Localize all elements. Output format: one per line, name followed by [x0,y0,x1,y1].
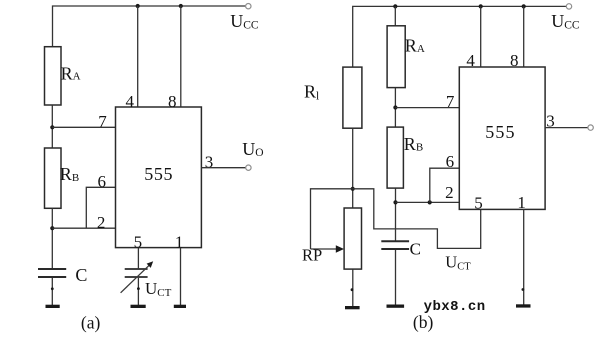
svg-text:8: 8 [510,51,519,70]
capacitor C (b) bottom plate [381,248,409,250]
terminal Ucc (a) open circle [246,3,251,8]
wire: pin 1 to ground (b) [523,209,525,304]
svg-text:2: 2 [97,213,106,232]
wire: R1 bottom to RP top (b) [352,128,354,208]
wire: RP wiper loop (b) [311,189,353,249]
ground (RP of b) [345,306,360,309]
svg-text:(b): (b) [413,312,434,332]
svg-text:4: 4 [466,51,475,70]
wire: variable capacitor to ground (a) [137,278,139,305]
resistor RB (a) [45,148,62,208]
junction: node pin7 (b) [393,105,397,109]
svg-text:1: 1 [517,193,526,212]
ground (C of b) [387,305,405,308]
resistor RB (b) [387,127,403,188]
svg-text:7: 7 [98,112,107,131]
svg-text:(a): (a) [81,313,101,333]
variable capacitor CT (a) bottom plate [125,276,148,278]
wire: control voltage pin 5 routing to RP wiper node (b) [353,189,481,249]
wire: pin 8 to supply (b) [523,6,525,67]
resistor RA (b) [387,26,405,88]
svg-text:8: 8 [168,92,177,111]
wire: RA bottom to RB top (b) [394,88,396,128]
ground (pin 5 of a) [131,305,146,308]
wire: RB bottom to capacitor C (a) [51,208,53,268]
wiper arrow shaft (b) [311,248,339,250]
capacitor C (b) top plate [381,240,409,242]
svg-text:C: C [75,265,87,285]
svg-text:RB: RB [60,164,79,184]
wire: pin 5 to variable capacitor (a) [137,248,139,269]
svg-text:UCC: UCC [551,11,580,32]
resistor RA (a) [45,47,62,105]
svg-text:C: C [410,239,421,258]
junction dot on pin1 ground wire (b) [522,288,525,291]
capacitor C (a) top plate [38,268,66,270]
svg-text:3: 3 [205,152,214,171]
wire: pin 4 to supply (b) [480,6,482,67]
wire: pin 8 to supply (a) [180,6,182,107]
wire: top supply rail (a) from RA top corner to Ucc terminal [53,6,246,47]
svg-text:5: 5 [474,193,483,212]
junction dot on RP ground wire (b) [351,288,354,291]
resistor R1 (b) [343,67,362,128]
svg-text:6: 6 [98,172,107,191]
junction: node pin2 (a) [50,226,54,230]
svg-text:RB: RB [404,134,423,154]
terminal Uo (a) open circle [246,165,251,170]
wire: pin 4 to supply (a) [137,6,139,107]
svg-text:6: 6 [446,152,455,171]
terminal output (b) open circle [588,125,593,130]
wire: pin 7 (b) [395,107,459,109]
svg-text:UCT: UCT [445,252,471,272]
junction: node pin2 (b) [393,200,397,204]
wire: pin 3 output (b) [545,127,588,129]
wire: pin 7 (a) [52,126,115,128]
variable capacitor CT (a) top plate [125,268,148,270]
capacitor C (a) bottom plate [38,276,66,278]
terminal Ucc (b) open circle [566,4,571,9]
wire: pin 1 to ground (a) [180,248,182,305]
junction: top rail / pin8 wire (b) [522,4,526,8]
ground (pin 1 of a) [174,305,186,308]
svg-text:7: 7 [446,92,455,111]
op: 555 IC (b) body [459,67,545,209]
junction: top rail / pin4 wire (a) [136,4,140,8]
wire: RB bottom through pin2 node to capacitor C (b) [395,188,397,241]
junction: top rail / RA rail (b) [393,4,397,8]
svg-text:UO: UO [242,139,263,159]
junction: pin6 step on pin2 net (b) [428,200,432,204]
wire: capacitor to ground (a) [51,278,53,305]
svg-text:4: 4 [126,92,135,111]
svg-text:RA: RA [405,36,425,56]
wire: top supply rail (b) from R1 top corner to Ucc terminal [353,6,567,67]
wire: pin 3 output (a) [201,167,245,169]
junction: R1/RP/wiper node (b) [351,187,355,191]
wire: pin 6 step (b) [430,168,460,202]
op: 555 IC (a) body [116,107,202,248]
wire: supply to RA (b) [394,6,396,25]
variable capacitor arrow (a) [121,265,150,293]
svg-text:RA: RA [61,63,81,83]
junction: node pin7 (a) [50,125,54,129]
junction: top rail / pin4 wire (b) [479,4,483,8]
potentiometer RP (b) body [344,208,361,269]
ground (C of a) [46,305,60,308]
svg-text:UCT: UCT [145,279,172,299]
wire: capacitor to ground (b) [395,250,397,305]
svg-text:UCC: UCC [230,11,259,32]
wire: pin 2 (a) [52,227,115,229]
svg-text:555: 555 [144,164,173,184]
ground (pin 1 of b) [516,304,531,307]
svg-text:2: 2 [445,183,454,202]
wire: RP bottom to ground (b) [352,269,354,306]
svg-text:1: 1 [175,232,184,251]
wiper arrowhead (b) [336,245,344,253]
wire: pin 6 step to pin2 net (a) [86,187,116,228]
svg-text:555: 555 [485,122,515,142]
junction: top rail / pin8 wire (a) [179,4,183,8]
svg-text:Rl: Rl [304,82,319,103]
junction dot on ground wire (a) [51,287,54,290]
wire: pin 2 (b) [396,201,460,203]
wire: RA bottom to RB top (a) [51,105,53,148]
junction dot on pin5 ground wire (a) [137,287,140,290]
